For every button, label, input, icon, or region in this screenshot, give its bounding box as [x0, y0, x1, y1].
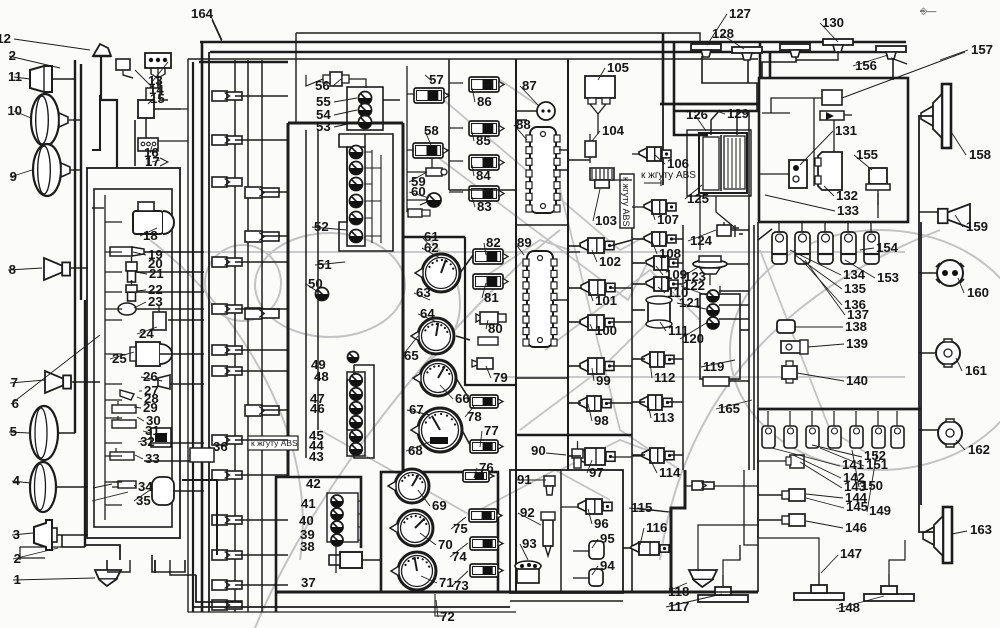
unit 146	[782, 514, 805, 526]
gauge 69	[388, 469, 429, 503]
svg-text:66: 66	[455, 391, 470, 406]
leader 50	[472, 197, 475, 207]
leader 21	[134, 485, 136, 487]
wire bottom thin y612	[188, 611, 516, 613]
cyl sensor lr5	[850, 411, 863, 448]
leader 64	[592, 131, 600, 141]
wire drop to right box b	[769, 52, 772, 78]
wire net 18	[235, 370, 288, 372]
leader 96	[682, 266, 700, 277]
wire stub left box	[105, 291, 122, 293]
wire top bus 4	[188, 58, 758, 60]
wire right edge low	[757, 410, 759, 538]
wire feeder A tail	[662, 104, 664, 185]
wire y486	[686, 485, 692, 487]
connector pair L2	[212, 135, 242, 145]
wire sensor left stub	[568, 365, 581, 367]
wire 107 left	[632, 206, 644, 208]
wire net 46	[670, 358, 683, 360]
wire lamp11 link	[52, 78, 75, 80]
lamp 3	[34, 520, 57, 550]
wire net 51	[727, 263, 749, 265]
svg-text:77: 77	[484, 423, 499, 438]
box battery cell2	[724, 136, 745, 189]
wire conn col b1	[247, 60, 249, 612]
horn 7	[45, 371, 71, 393]
wire mid h2	[516, 434, 632, 437]
sensor 106	[639, 147, 671, 161]
wire 97 right	[611, 456, 632, 458]
wire net 28	[383, 99, 400, 101]
leader 44	[420, 533, 436, 545]
wire bl conn	[170, 560, 196, 575]
leader 112	[800, 258, 842, 305]
wire sensor left stub r	[632, 309, 645, 311]
leader 118	[795, 326, 843, 328]
wire thick 129	[674, 110, 758, 113]
leader 32	[425, 131, 431, 145]
svg-text:к жгуту ABS: к жгуту ABS	[641, 170, 696, 181]
leader 99	[680, 322, 708, 339]
leader 10	[134, 302, 146, 308]
wire trunk bl 2	[19, 547, 21, 560]
leader 103	[853, 55, 888, 66]
leader	[12, 533, 33, 535]
wire net 57	[711, 110, 720, 135]
relay 131	[789, 160, 807, 188]
svg-text:129: 129	[727, 106, 749, 121]
wire bottom right v	[739, 545, 741, 560]
svg-text:156: 156	[855, 58, 877, 73]
svg-text:42: 42	[306, 476, 321, 491]
box right col x749	[748, 225, 750, 470]
leader 81	[650, 459, 657, 473]
wire conn col a1	[201, 43, 204, 612]
connector 60b	[408, 209, 430, 217]
wire bl low	[20, 557, 45, 559]
leader 95	[688, 230, 716, 241]
wire 87 left	[516, 110, 537, 112]
leader 132	[812, 445, 862, 457]
svg-text:106: 106	[667, 156, 689, 171]
svg-text:2: 2	[9, 48, 16, 63]
box right col x754	[753, 225, 755, 470]
cyl sensor lr4	[828, 411, 841, 448]
svg-text:4: 4	[13, 473, 21, 488]
leader 128	[806, 521, 843, 528]
lamp 60	[427, 193, 441, 207]
speaker 158	[921, 84, 951, 148]
wire thick y62	[199, 61, 288, 63]
leader 2	[135, 70, 154, 89]
lamp 55	[359, 92, 372, 105]
wire headlamp bus b	[80, 64, 82, 300]
wire net 23	[235, 554, 288, 556]
wire x740 v	[740, 329, 749, 331]
wire conn col b2	[261, 60, 263, 612]
wire right thick y409	[758, 408, 921, 411]
sensor 109	[646, 256, 678, 270]
wire right speaker bus	[919, 116, 934, 532]
svg-text:115: 115	[631, 500, 652, 515]
leader 23	[189, 447, 211, 456]
wire net 33	[516, 224, 568, 226]
leader 135	[952, 531, 967, 534]
leader 59	[450, 543, 468, 557]
wire stub left box	[105, 271, 122, 273]
connector small y341	[478, 337, 498, 345]
tag k-zhgutu-ABS vertical	[620, 174, 634, 228]
svg-text:21: 21	[149, 266, 164, 281]
wire lamp3 link	[57, 534, 88, 536]
leader 15	[137, 397, 142, 399]
gauge 66	[413, 360, 456, 396]
wire 52 outline v1	[371, 150, 373, 243]
svg-text:81: 81	[484, 290, 499, 305]
leader 86	[520, 544, 528, 560]
connector 59	[426, 168, 447, 176]
air horn 4 inner	[35, 464, 46, 510]
svg-text:162: 162	[968, 442, 990, 457]
wire lamps col right	[358, 500, 361, 502]
valve 111	[646, 296, 672, 328]
leader 39	[402, 336, 418, 356]
wire stub left box	[105, 221, 122, 223]
leader 120	[797, 373, 844, 381]
wire 15 tail	[181, 108, 188, 110]
fuse 78	[470, 395, 503, 408]
svg-text:134: 134	[843, 267, 866, 282]
svg-text:107: 107	[657, 212, 679, 227]
svg-text:94: 94	[600, 558, 615, 573]
leader 127	[806, 498, 844, 508]
wire sensor left stub r	[632, 262, 645, 264]
wire horn8 link	[71, 267, 88, 269]
leader 102	[820, 23, 838, 42]
wire mid h4	[568, 251, 580, 253]
motor 18	[133, 202, 174, 234]
leader 49	[472, 165, 474, 176]
wire bl step1	[85, 545, 120, 560]
speaker 163	[923, 507, 952, 563]
leader 123	[772, 448, 840, 466]
cyl sensor lr7	[891, 411, 904, 448]
wire thick staircase	[182, 480, 217, 555]
cylinder sensor r5	[864, 222, 879, 264]
svg-text:67: 67	[409, 402, 424, 417]
wire fuse85	[449, 127, 463, 129]
wire right bus branch 160	[919, 272, 937, 274]
lamp 41	[331, 495, 343, 507]
cyl sensor lr6	[872, 411, 885, 448]
leader 116	[955, 215, 963, 227]
wire net 50	[731, 229, 749, 231]
leader	[12, 481, 30, 483]
lamp 122	[707, 290, 719, 302]
wire sensor left stub r	[632, 358, 645, 360]
svg-text:102: 102	[599, 254, 621, 269]
leader 80	[648, 404, 651, 418]
roof lamp 127	[691, 44, 721, 57]
leader 113	[805, 260, 845, 315]
lamp 46-2	[350, 388, 362, 400]
wire 14 down	[123, 75, 133, 78]
wire 58 tail	[431, 158, 433, 168]
box 52 outer step	[339, 134, 393, 251]
wire net 41	[610, 365, 632, 367]
svg-text:97: 97	[589, 465, 604, 480]
connector 119 bottom	[703, 377, 729, 386]
diode 133	[820, 111, 852, 120]
relay 89	[523, 251, 557, 347]
svg-text:124: 124	[690, 233, 713, 248]
wire rb int5	[758, 173, 789, 175]
wire rb 155 down	[877, 193, 879, 218]
sensor 114	[642, 448, 674, 463]
gauge 70	[390, 510, 433, 546]
sensor 112	[642, 352, 674, 367]
wire net 4	[136, 308, 204, 310]
leader 83	[640, 528, 644, 545]
cylinder sensor r2	[795, 222, 810, 264]
leader 13	[141, 377, 162, 381]
box lower right section	[757, 222, 759, 592]
svg-text:33: 33	[145, 451, 160, 466]
wire fuse83-86 col	[449, 82, 463, 84]
wire stub left box	[105, 417, 122, 419]
leader 54	[486, 366, 491, 378]
wire rb int2	[762, 112, 790, 114]
leader 11	[137, 327, 157, 334]
wire 52 link3	[365, 183, 372, 185]
leader 16	[134, 407, 141, 408]
lamp 52-2	[350, 162, 363, 175]
svg-text:128: 128	[712, 26, 734, 41]
wire net 11	[235, 95, 288, 97]
wire net 47	[668, 401, 683, 403]
wire net 24	[235, 584, 288, 586]
svg-text:86: 86	[477, 94, 492, 109]
wire headlamp9 link	[69, 169, 81, 171]
fuse 86	[469, 77, 504, 92]
box gauge right upper	[465, 237, 516, 385]
connector pair L8	[212, 435, 242, 445]
leader 31	[425, 75, 432, 81]
leader 46	[436, 600, 438, 617]
wire sensor left stub r	[632, 454, 645, 456]
sensor 107	[644, 200, 676, 214]
roof lamp 130	[823, 39, 853, 52]
svg-text:10: 10	[7, 103, 22, 118]
leader 14	[139, 390, 142, 392]
unit 25	[130, 342, 172, 366]
svg-text:⎆—: ⎆—	[920, 6, 936, 16]
connector pair L1	[212, 91, 242, 101]
socket 160	[936, 260, 964, 286]
ground bell 118	[689, 570, 717, 587]
svg-text:38: 38	[300, 539, 315, 554]
unit 24	[153, 305, 166, 330]
wire rb int4	[833, 120, 835, 152]
cylinder sensor r3	[818, 222, 833, 264]
wire stub left box	[105, 319, 122, 321]
chassis ground 148	[864, 574, 914, 601]
plug 90	[572, 441, 583, 468]
leader 34	[409, 192, 429, 198]
gauge 65	[411, 318, 454, 354]
leader 90	[546, 453, 566, 455]
fuse 74	[470, 537, 503, 550]
sensor 98	[579, 396, 611, 411]
wire sensor left stub	[568, 455, 581, 457]
lamp 52-5	[350, 212, 363, 225]
wire 117 up	[723, 545, 740, 575]
wire net 20	[235, 439, 288, 441]
leader 51	[484, 243, 486, 255]
svg-text:43: 43	[309, 449, 324, 464]
wire fuse83	[449, 191, 463, 193]
wire net 17	[235, 349, 288, 351]
box 46 outer step	[347, 365, 374, 458]
leader	[14, 77, 30, 79]
sensor 102	[580, 238, 614, 253]
wire fuse58 stub	[407, 149, 413, 151]
wire net 10	[174, 490, 204, 492]
leader 52	[482, 283, 486, 298]
unit 138	[777, 320, 795, 333]
chassis ground 117	[698, 575, 748, 602]
leader 78	[660, 322, 666, 331]
box mid divider x632	[631, 225, 633, 592]
box thick center bottom edge	[276, 591, 758, 594]
wire net 1	[144, 251, 204, 253]
plug 29	[112, 401, 136, 413]
leader 124	[793, 455, 841, 478]
wire 52 outline v2	[380, 155, 382, 243]
svg-text:98: 98	[594, 413, 609, 428]
wire conn bottom loop	[152, 555, 185, 572]
lamp 46-1	[350, 374, 362, 386]
wire net 55	[740, 329, 749, 331]
wire lamp130 drop	[762, 55, 796, 78]
svg-text:41: 41	[301, 496, 316, 511]
leader 130	[867, 452, 877, 512]
svg-text:95: 95	[600, 531, 615, 546]
lamp 52-3	[350, 178, 363, 191]
tag k-zhgutu-ABS small	[248, 436, 298, 450]
svg-text:113: 113	[653, 410, 674, 425]
svg-text:64: 64	[420, 306, 435, 321]
wire lamp156 stem	[892, 58, 894, 80]
wire 105 down	[597, 114, 599, 134]
wire stub 142	[758, 460, 786, 462]
svg-text:149: 149	[869, 503, 891, 518]
headlamp 10	[31, 94, 68, 146]
leader 133	[821, 555, 838, 573]
wire box9196 bottom2	[510, 600, 623, 602]
svg-text:34: 34	[138, 479, 153, 494]
wire rb int1	[771, 98, 822, 113]
lamp 46-4	[350, 416, 362, 428]
box 119	[700, 294, 740, 379]
svg-text:165: 165	[718, 401, 740, 416]
leader 89	[592, 566, 598, 575]
wire net 58	[737, 112, 749, 225]
sensor 113	[640, 395, 672, 410]
leader 140	[92, 492, 128, 501]
flasher 26	[158, 375, 170, 389]
leader 26	[334, 110, 357, 115]
box center divider x516	[515, 59, 517, 592]
sensor 101	[581, 280, 615, 295]
lamp 50	[316, 288, 329, 301]
svg-text:160: 160	[967, 285, 989, 300]
wire net 26	[317, 130, 319, 430]
wire 89 right	[553, 299, 568, 301]
lamp 52-1	[350, 146, 363, 159]
wire 52 link2	[365, 167, 381, 169]
svg-text:71: 71	[439, 575, 454, 590]
svg-text:36: 36	[213, 439, 228, 454]
box lamp cluster 53-55	[347, 87, 383, 130]
wire stub left box	[105, 504, 122, 506]
wire 52 link4	[365, 200, 381, 202]
wire 52 link6	[365, 235, 381, 237]
svg-text:146: 146	[845, 520, 867, 535]
fuse 73	[470, 564, 503, 577]
sensor 96	[578, 499, 612, 514]
wire net 16	[235, 308, 288, 310]
sensor 97	[577, 448, 615, 465]
svg-text:70: 70	[438, 537, 453, 552]
connector pair R4	[245, 405, 279, 416]
svg-text:164: 164	[191, 6, 214, 21]
unit 140	[782, 361, 797, 383]
leader 75	[652, 241, 657, 254]
wire net 59	[758, 229, 772, 240]
svg-text:89: 89	[517, 235, 532, 250]
leader 92	[716, 111, 725, 114]
wire net 6	[160, 353, 204, 355]
leader 53	[486, 320, 488, 329]
svg-text:96: 96	[594, 516, 609, 531]
wire 95 left	[573, 550, 589, 552]
leader	[11, 335, 100, 404]
wire sensor left stub	[568, 287, 581, 289]
leader 77	[658, 287, 665, 293]
leader 87	[588, 509, 592, 524]
wire top bus 1	[296, 33, 700, 42]
wire 13 to 15	[146, 76, 158, 100]
leader 85	[518, 513, 541, 525]
leader 105	[950, 130, 966, 155]
wire net 39	[610, 287, 632, 289]
leader 60	[452, 571, 468, 586]
wire net 49	[682, 225, 684, 470]
leader 74	[652, 210, 655, 220]
svg-text:140: 140	[846, 373, 868, 388]
wire 57 right	[446, 93, 449, 95]
svg-text:93: 93	[522, 536, 537, 551]
lamp 49	[348, 352, 359, 363]
svg-text:69: 69	[432, 498, 447, 513]
unit 31-32	[151, 428, 171, 447]
wire left outer vertical	[187, 59, 189, 612]
box 91-96 divider	[560, 470, 562, 593]
cyl sensor lr3	[806, 411, 819, 448]
wire net 9	[144, 460, 204, 462]
leader 101	[716, 400, 752, 409]
